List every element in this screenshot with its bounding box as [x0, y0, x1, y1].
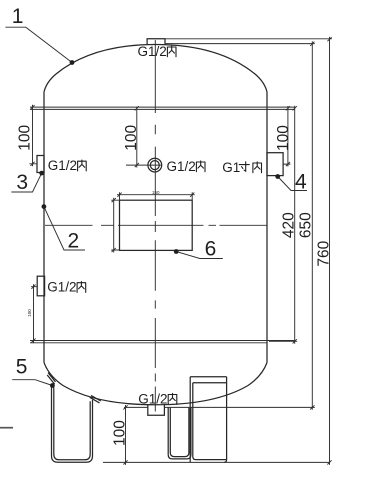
left leg top-left gusset (double diagonal) — [47, 373, 55, 385]
dim center 100 ticks — [135, 106, 139, 167]
svg-text:1: 1 — [12, 5, 24, 28]
dim lower-left 100 ticks — [31, 285, 35, 343]
center rear leg inner — [170, 408, 189, 457]
vessel left wall — [43, 92, 45, 363]
vessel right wall — [266, 92, 268, 363]
nozzle right G1 — [267, 153, 283, 176]
text top nozzle G1/2内 — [138, 44, 177, 59]
dim left 100 line — [29, 105, 37, 167]
label 5 dot — [50, 383, 55, 388]
dim lower-left 100 (small) line — [31, 284, 37, 343]
text upper-left nozzle G1/2内 — [48, 158, 86, 173]
top tangent weld seam (double line) — [30, 107, 295, 109]
label 3 dot — [39, 171, 44, 176]
svg-text:420: 420 — [280, 212, 297, 238]
text right nozzle G1寸内 — [222, 160, 261, 175]
svg-text:2: 2 — [68, 230, 80, 253]
label 5 leader — [12, 380, 52, 386]
svg-text:G1/2: G1/2 — [138, 44, 167, 59]
nozzle lower-left G1/2 — [37, 276, 44, 296]
text center nozzle G1/2内 — [167, 159, 206, 174]
dim right 100 ticks — [286, 106, 290, 166]
bottom head (dished) — [44, 363, 267, 405]
ground baseline — [103, 461, 330, 463]
dim manhole height line — [111, 198, 120, 253]
text lower-left nozzle G1/2内 — [47, 280, 85, 295]
svg-text:100: 100 — [27, 309, 32, 317]
label 6 dot — [174, 249, 179, 254]
dim manhole width ticks — [117, 193, 194, 197]
dim 650 extension top — [165, 43, 315, 45]
label 4 dot — [275, 174, 280, 179]
manhole box item 6 — [120, 200, 193, 250]
horizontal centerline of manhole — [45, 224, 267, 226]
svg-text:100: 100 — [275, 125, 292, 151]
svg-text:100: 100 — [111, 420, 128, 446]
left front leg inner — [54, 387, 90, 460]
center rear leg outer — [168, 408, 191, 459]
dim right 100 line — [283, 106, 290, 167]
label 6 leader — [176, 252, 223, 259]
nozzle upper-left G1/2 — [37, 156, 44, 173]
label 1 dot — [70, 60, 75, 65]
label 1 leader — [5, 27, 72, 62]
dim 650 extension bottom — [124, 406, 315, 408]
left front leg outer — [52, 385, 93, 462]
dim 420 ticks — [293, 106, 297, 343]
nozzle center circle outer — [148, 158, 162, 172]
nozzle top G1/2 — [147, 39, 165, 45]
svg-text:3: 3 — [16, 171, 28, 194]
dim 760 ticks — [327, 37, 331, 464]
dim 650 line — [311, 41, 313, 410]
label 2 leader — [44, 207, 85, 250]
dim bottom 100 ticks — [123, 405, 127, 464]
dim manhole width line — [117, 192, 195, 200]
label 4 leader — [278, 177, 307, 191]
label 2 dot — [42, 204, 47, 209]
vertical centerline — [154, 40, 156, 412]
svg-text:G1/2: G1/2 — [47, 280, 76, 295]
svg-text:100: 100 — [16, 124, 33, 150]
dim 650 ticks — [310, 42, 314, 410]
datum stub at left edge — [0, 427, 13, 429]
svg-text:G1/2: G1/2 — [167, 159, 196, 174]
svg-text:G1: G1 — [222, 160, 240, 175]
text bottom nozzle G1/2内 — [138, 391, 177, 406]
right front leg outline — [190, 377, 226, 463]
svg-text:150: 150 — [152, 190, 160, 195]
dim left 100 ticks — [30, 105, 34, 166]
bottom tangent weld seam (double line) — [30, 341, 295, 343]
svg-text:6: 6 — [205, 238, 217, 261]
dim 420 line — [269, 106, 297, 344]
nozzle center circle inner — [150, 161, 159, 170]
svg-text:5: 5 — [16, 356, 28, 379]
dim bottom 100 line — [125, 405, 127, 465]
right front leg inner lines — [193, 383, 227, 460]
svg-text:G1/2: G1/2 — [138, 391, 167, 406]
dim 760 line — [329, 37, 331, 465]
svg-text:100: 100 — [123, 124, 140, 150]
svg-text:760: 760 — [316, 240, 333, 266]
nozzle bottom G1/2 — [148, 404, 165, 415]
svg-text:650: 650 — [298, 212, 315, 238]
left leg top-right gusset (double diagonal) — [90, 395, 101, 403]
svg-text:G1/2: G1/2 — [48, 158, 77, 173]
top head (dished) — [44, 45, 267, 93]
crosshair through circle nozzle — [126, 164, 162, 166]
dim manhole height ticks — [112, 198, 116, 252]
dim center 100 line — [136, 107, 138, 168]
label 3 leader — [11, 173, 41, 192]
dim 760 extension top — [165, 38, 332, 40]
